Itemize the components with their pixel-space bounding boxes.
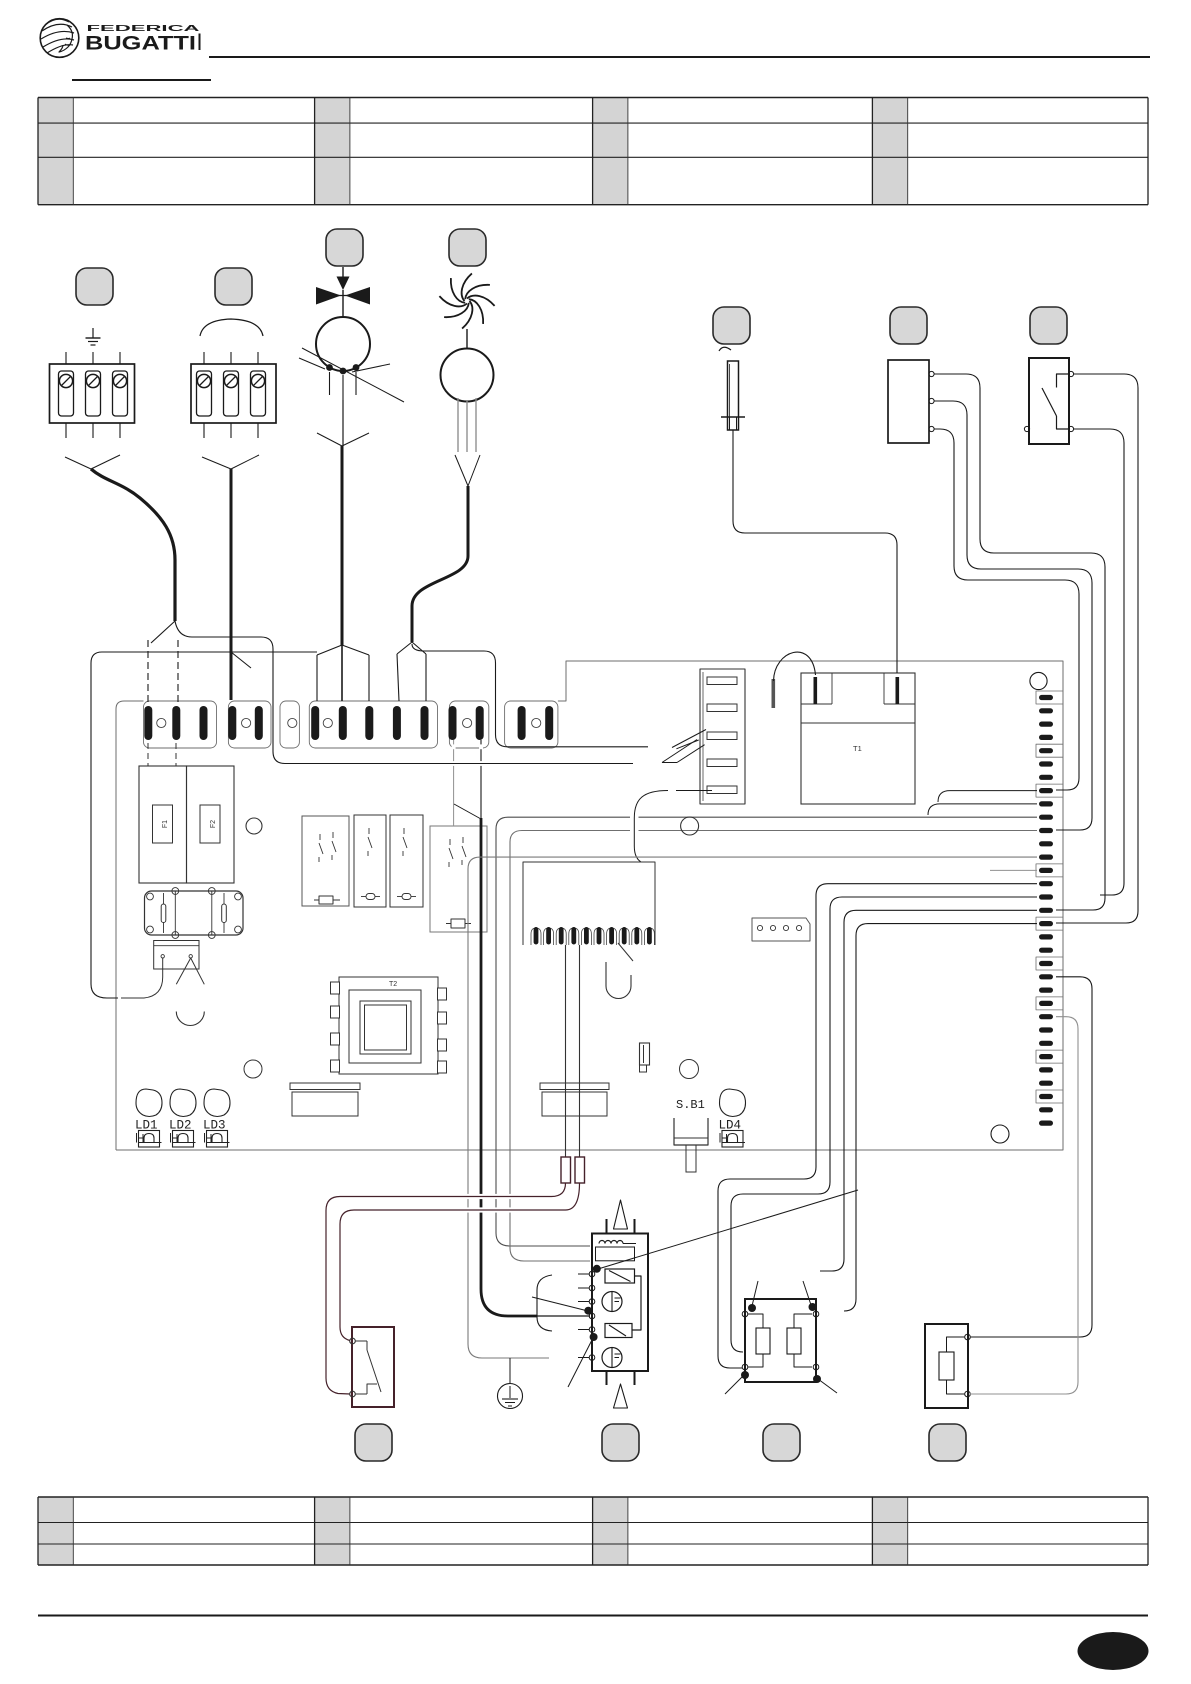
svg-text:T2: T2 — [389, 981, 397, 988]
svg-text:F2: F2 — [210, 820, 217, 828]
svg-text:BUGATTI: BUGATTI — [85, 33, 196, 55]
svg-text:S.B1: S.B1 — [676, 1098, 705, 1112]
svg-text:T1: T1 — [853, 744, 862, 753]
svg-text:F1: F1 — [162, 820, 169, 828]
